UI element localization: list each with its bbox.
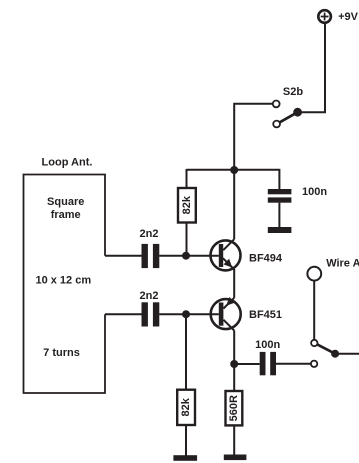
svg-text:100n: 100n <box>255 339 280 351</box>
svg-text:2n2: 2n2 <box>140 290 159 302</box>
svg-text:BF451: BF451 <box>249 309 282 321</box>
svg-text:Wire A: Wire A <box>326 258 359 270</box>
svg-text:Loop Ant.: Loop Ant. <box>42 157 93 169</box>
svg-text:82k: 82k <box>180 397 192 416</box>
svg-text:S2b: S2b <box>283 86 303 98</box>
svg-text:100n: 100n <box>302 186 327 198</box>
svg-text:560R: 560R <box>228 395 240 421</box>
svg-text:2n2: 2n2 <box>140 228 159 240</box>
svg-text:frame: frame <box>51 209 81 221</box>
svg-text:+9V: +9V <box>338 11 359 23</box>
svg-text:82k: 82k <box>181 195 193 214</box>
svg-text:10 x 12 cm: 10 x 12 cm <box>35 274 91 286</box>
svg-text:BF494: BF494 <box>249 253 283 265</box>
svg-text:7 turns: 7 turns <box>43 347 80 359</box>
svg-text:Square: Square <box>47 196 84 208</box>
